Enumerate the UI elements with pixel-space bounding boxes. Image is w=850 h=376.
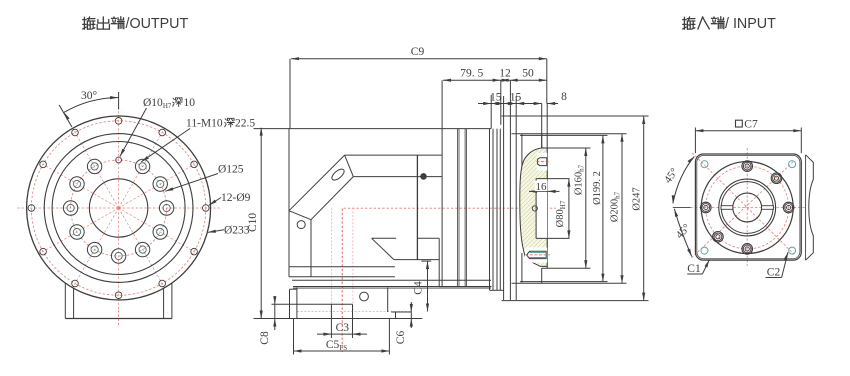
svg-text:12-Ø9: 12-Ø9 bbox=[221, 192, 251, 204]
svg-text:50: 50 bbox=[522, 68, 534, 80]
middle view: Ø80 bore outline bbox=[536, 178, 569, 180]
middle view: body right block bbox=[438, 238, 440, 286]
middle view: inner cavity walls bbox=[457, 129, 459, 287]
svg-text:/ INPUT: / INPUT bbox=[725, 16, 776, 32]
left view: bolt circle for 12-Ø9 holes (red dashed) bbox=[31, 121, 205, 295]
svg-text:C10: C10 bbox=[247, 213, 259, 232]
dimension: 8 spigot width bbox=[530, 103, 542, 105]
svg-text:C1: C1 bbox=[687, 263, 701, 275]
title: INPUT end label 输入端/ INPUT bbox=[683, 17, 695, 29]
dimension: C8 base height bbox=[274, 296, 276, 330]
middle view: hatched flange cross-section bbox=[520, 148, 547, 267]
middle view: axis centerlines (red) bbox=[344, 207, 557, 209]
left view: center bore circle bbox=[89, 179, 147, 237]
dimension: Ø200h7 bbox=[621, 134, 623, 283]
dimension: 15 / 15 row bbox=[478, 103, 530, 105]
left view: mounting base front view bbox=[64, 283, 66, 319]
svg-text:11-M10: 11-M10 bbox=[186, 118, 223, 130]
right view: square flange outline bbox=[695, 154, 801, 260]
middle view: center hole mark bbox=[532, 206, 537, 211]
svg-text:Ø125: Ø125 bbox=[218, 164, 244, 176]
dimension: Ø247 flange OD bbox=[643, 116, 645, 301]
left view: 12-Ø9 through holes bbox=[115, 118, 122, 125]
leader + label: 11-M10 depth 22.5 bbox=[141, 129, 190, 162]
dimension: 79.5 / 12 / 50 row bbox=[443, 79, 547, 81]
svg-text:16: 16 bbox=[536, 181, 548, 193]
middle view: adapter plates bbox=[489, 129, 491, 291]
left view: 11-M10 tapped holes bbox=[135, 159, 149, 173]
middle view: outlet right step bbox=[372, 237, 397, 239]
svg-text:79. 5: 79. 5 bbox=[460, 68, 483, 80]
svg-text:22.5: 22.5 bbox=[235, 118, 255, 130]
leader + label: C1 bbox=[702, 260, 709, 274]
dimension: C3 slot width bbox=[330, 319, 332, 339]
dimension: C4 bbox=[427, 261, 429, 311]
middle view: elbow face elliptical hole bbox=[330, 167, 346, 182]
dimension: C6 base lip bbox=[410, 302, 412, 328]
middle view: bore and counterbore cutouts bbox=[536, 179, 547, 239]
svg-text:C3: C3 bbox=[336, 322, 350, 334]
leader + label: 12-Ø9 bbox=[209, 198, 221, 206]
svg-text:C4: C4 bbox=[413, 281, 425, 295]
right view: bolt circle (red dashed) bbox=[706, 166, 789, 249]
left view: flange step circle bbox=[44, 134, 193, 283]
dimension: C9 overall length bbox=[291, 58, 547, 60]
middle view: top cap screw in section bbox=[538, 158, 547, 166]
dimension: square C7 bbox=[694, 128, 696, 154]
left view: boss circle bbox=[52, 142, 185, 275]
svg-text:30°: 30° bbox=[81, 90, 98, 102]
middle view: 45deg elbow housing bbox=[345, 154, 443, 156]
right view: side clamp tab profile bbox=[806, 155, 814, 260]
title: OUTPUT end label 输出端/OUTPUT bbox=[83, 17, 95, 29]
middle view: Ø200/Ø199.2 extension lines bbox=[512, 133, 627, 135]
svg-text:C9: C9 bbox=[411, 46, 425, 58]
right view: clamp slots bbox=[721, 206, 733, 210]
dimension: Ø80H7 bore bbox=[568, 179, 570, 239]
svg-text:8: 8 bbox=[561, 91, 567, 103]
svg-text:C7: C7 bbox=[744, 118, 758, 130]
right view: boss double ring bbox=[719, 179, 776, 236]
svg-text:15: 15 bbox=[490, 92, 502, 104]
svg-text:C8: C8 bbox=[259, 331, 271, 345]
svg-text:Ø199. 2: Ø199. 2 bbox=[592, 171, 603, 205]
svg-text:C2: C2 bbox=[767, 267, 781, 279]
middle view: bottom set screw in section bbox=[527, 251, 547, 258]
left view: Ø10H7 pin hole bbox=[116, 157, 122, 163]
middle view: internal wall (thick) bbox=[416, 155, 418, 260]
left view: outer circle Ø233 flange OD bbox=[27, 116, 211, 300]
middle view: base side hole bbox=[360, 292, 369, 301]
middle view: elbow end cap hole bbox=[297, 221, 305, 229]
left view: output flange front view - radial centerlines (12 rays) bbox=[118, 106, 120, 208]
dimension: C10 overall height bbox=[260, 128, 262, 319]
dimension: C5 base width bbox=[293, 319, 295, 355]
leader + label: Ø125 bolt circle bbox=[165, 174, 218, 192]
left view: vertical centerline extension to base bbox=[118, 310, 120, 326]
right view: input flange centerlines (red) bbox=[673, 207, 691, 209]
svg-text:12: 12 bbox=[499, 68, 511, 80]
leader + label: C2 bbox=[782, 252, 788, 277]
svg-text:Ø247: Ø247 bbox=[632, 187, 643, 210]
dimension: Ø199.2 bbox=[602, 135, 604, 281]
svg-text:C6: C6 bbox=[395, 331, 407, 345]
dimension: 30 degree extension lines bbox=[118, 92, 120, 110]
dimension: Ø160h7 spigot bbox=[585, 148, 587, 268]
dimension: 30 degree angle arc bbox=[64, 98, 119, 113]
middle view: output flange disc Ø247 bbox=[502, 115, 649, 117]
dimension: upper 45 degree arc bbox=[673, 157, 694, 204]
right view: 4 corner screw holes bbox=[701, 161, 708, 168]
middle view: gearbox body outline bbox=[289, 128, 491, 130]
middle view: bottom outlet wall bbox=[310, 220, 312, 277]
dimension: 16 bore depth bbox=[529, 190, 560, 192]
svg-text:/OUTPUT: /OUTPUT bbox=[126, 16, 189, 32]
svg-text:15: 15 bbox=[510, 92, 522, 104]
leader + label: Ø233 bbox=[208, 230, 224, 233]
svg-text:10: 10 bbox=[184, 97, 196, 109]
right view: 6 input bolt holes bbox=[783, 202, 794, 213]
right view: pilot circle bbox=[701, 162, 793, 254]
leader + label: Ø10H7 depth 10 bbox=[120, 108, 147, 157]
middle view: mounting base side view bbox=[290, 288, 297, 290]
dimension: lower 45 degree arc bbox=[674, 209, 692, 257]
middle view: junction dot bbox=[421, 174, 427, 180]
svg-text:Ø233: Ø233 bbox=[224, 225, 250, 237]
middle view: Ø160 spigot edges/extensions bbox=[542, 147, 591, 149]
right view: input bore circle bbox=[733, 193, 762, 222]
left view: bolt circle Ø125 for M10 holes (red dashed) bbox=[71, 160, 167, 256]
